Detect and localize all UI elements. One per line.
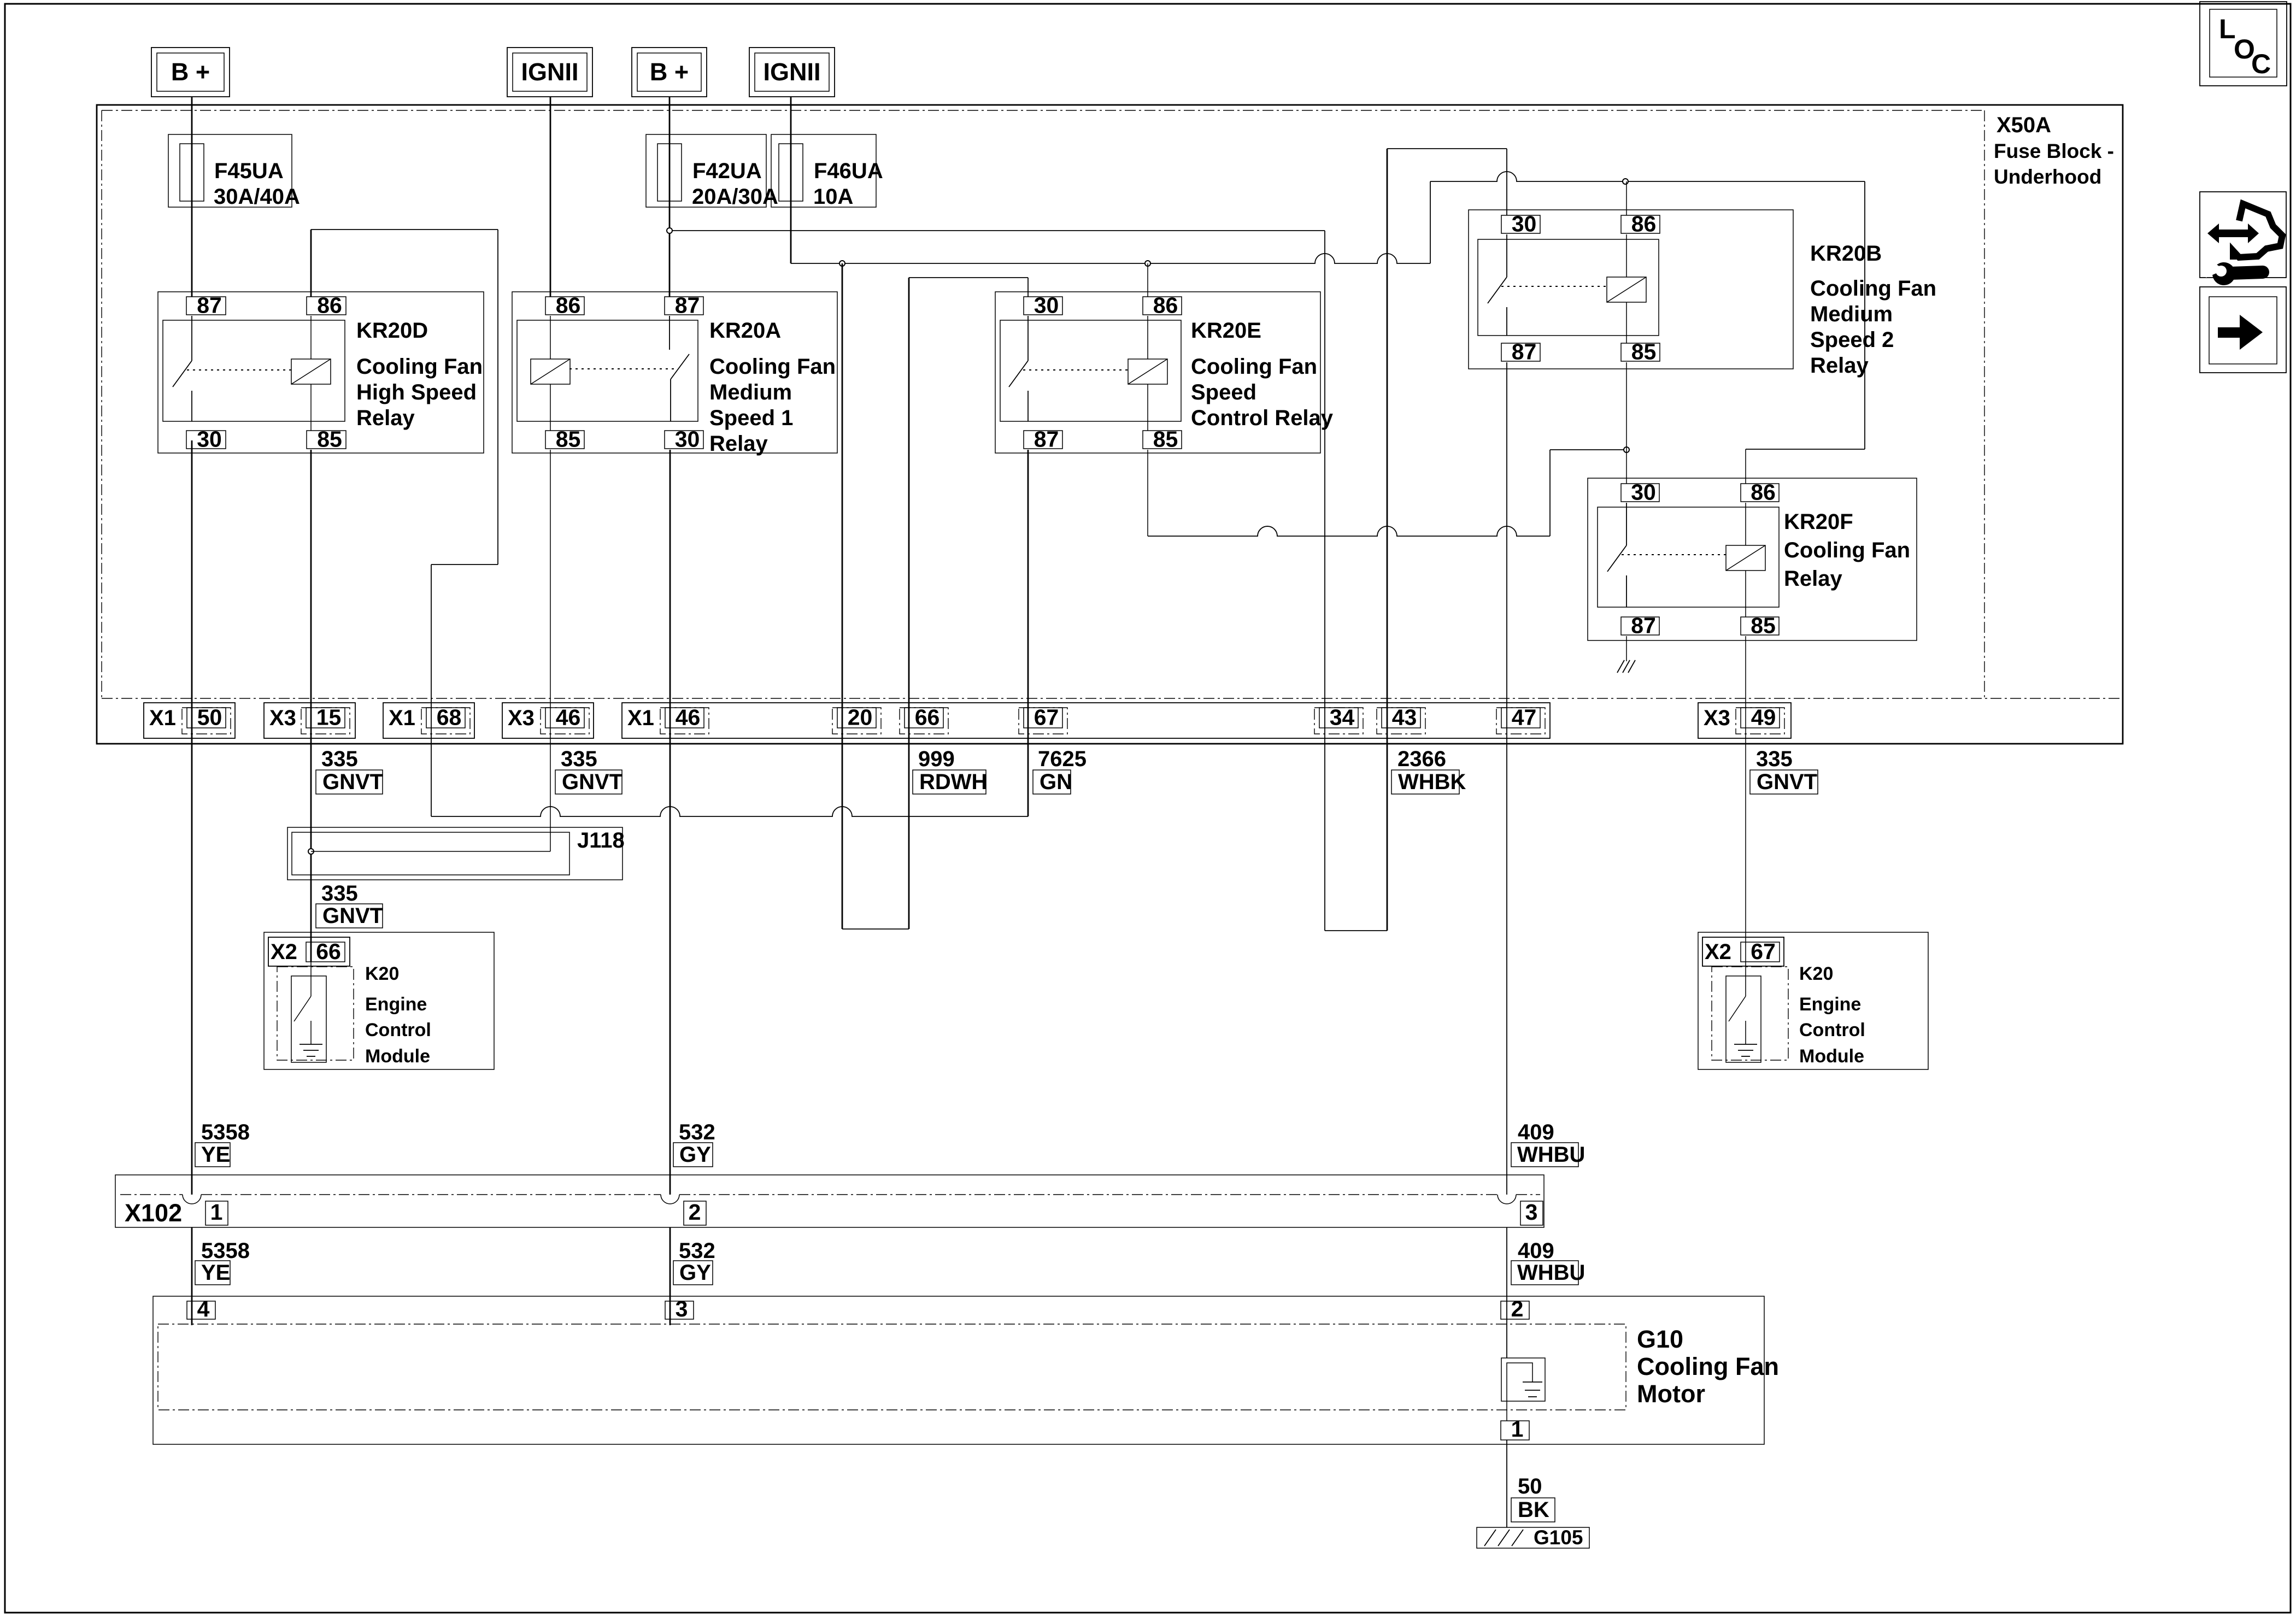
svg-text:10A: 10A [813,185,853,209]
label 5358 YE (above X102) [195,1120,250,1167]
motor symbol with internal ground [1501,1358,1545,1401]
svg-text:Relay: Relay [709,432,768,456]
fuse block label X50A Fuse Block - Underhood [1994,113,2114,188]
svg-text:G105: G105 [1534,1526,1583,1549]
wire KR20E 85 east run (hops) to KR20B 87/85 area [1147,450,1148,536]
svg-text:46: 46 [676,705,701,730]
connector X3 pin 46 [502,703,594,738]
svg-text:87: 87 [197,293,222,318]
svg-text:X2: X2 [1705,940,1731,964]
svg-text:WHBU: WHBU [1517,1143,1585,1167]
svg-text:86: 86 [1751,480,1776,505]
svg-text:Medium: Medium [709,380,792,404]
svg-text:46: 46 [556,705,581,730]
svg-text:F42UA: F42UA [692,159,762,183]
J118 bus wire [311,851,550,852]
svg-text:335: 335 [1756,747,1793,771]
svg-text:KR20F: KR20F [1784,510,1853,534]
X102 pin 3 [1520,1199,1543,1225]
switch KR20D [191,316,192,361]
svg-text:3: 3 [1525,1199,1538,1225]
G10 pin 3 [665,1296,694,1321]
svg-text:Engine: Engine [365,994,427,1015]
svg-text:85: 85 [1153,427,1178,452]
connector X3 pin 15 [264,703,355,738]
svg-text:X102: X102 [125,1199,182,1227]
wire KR20F 87 to ground [1626,636,1627,661]
svg-text:GY: GY [679,1143,711,1167]
svg-text:5358: 5358 [201,1120,250,1144]
svg-text:Speed 1: Speed 1 [709,406,793,430]
svg-text:B +: B + [171,58,210,86]
wire KR20B 85 to KR20F 30 [1626,362,1627,484]
svg-text:34: 34 [1330,705,1355,730]
svg-text:86: 86 [1153,293,1178,318]
svg-text:68: 68 [437,705,462,730]
wire feed along top to KR20B 86 and KR20F 86 riser [1430,172,1865,181]
wire 532 GY (X102 2 to G10 3) [670,1227,671,1325]
module K20 Engine Control Module (left, pin X2 66) [264,932,494,1069]
wire IGNII (left) to KR20A 86 [550,97,551,297]
svg-text:Cooling Fan: Cooling Fan [356,355,483,379]
svg-text:K20: K20 [1799,963,1833,984]
svg-text:Underhood: Underhood [1994,166,2101,188]
svg-text:67: 67 [1751,939,1776,964]
svg-text:20: 20 [848,705,873,730]
connector X102 [115,1175,1544,1227]
coil KR20E [1128,359,1167,384]
relay KR20B Cooling Fan Medium Speed 2 Relay [1469,210,1936,378]
wire KR20F 85 to X3 49 [1745,636,1746,962]
pin 67 [1019,705,1067,734]
wire KR20E 87 down to pin 67 and under-block link [1027,450,1029,816]
svg-text:43: 43 [1392,705,1417,730]
svg-text:Motor: Motor [1637,1380,1705,1408]
label 409 WHBU (above X102) [1511,1120,1585,1167]
svg-text:F46UA: F46UA [814,159,883,183]
fuse F45UA 30A/40A [168,134,300,209]
svg-text:30: 30 [197,427,222,452]
svg-text:49: 49 [1751,705,1776,730]
pin 66 [900,705,948,734]
power feed box B + [632,48,707,97]
wire KR20B 87 to pin 47 [1506,362,1507,1195]
coil KR20A [531,359,570,384]
svg-text:Cooling Fan: Cooling Fan [709,355,836,379]
power feed box IGNII [507,48,592,97]
svg-text:Cooling Fan: Cooling Fan [1637,1353,1779,1380]
wire B+ (left) to F45UA to KR20D 87 [191,97,193,297]
label 999 RDWH [913,747,987,794]
relay KR20E Cooling Fan Speed Control Relay [995,292,1334,453]
node pin 20 tap junction [839,261,845,266]
svg-text:X1: X1 [627,706,654,730]
svg-text:GNVT: GNVT [322,770,383,794]
svg-text:IGNII: IGNII [763,58,820,86]
svg-text:KR20A: KR20A [709,319,781,343]
svg-text:20A/30A: 20A/30A [692,185,778,209]
svg-text:B +: B + [650,58,689,86]
svg-text:K20: K20 [365,963,399,984]
wire B+ branch east to pin 34 drop [670,230,1325,231]
svg-text:335: 335 [321,747,358,771]
svg-text:Engine: Engine [1799,994,1861,1015]
motor G10 Cooling Fan Motor [153,1296,1779,1444]
switch KR20A (mirrored) [669,316,670,350]
fuse block X50A outer box [97,105,2123,744]
label 335 GNVT (X3 49 to K20 67) [1750,747,1818,794]
icon: vehicle repair (arrows + outline + wrench) [2200,192,2286,285]
svg-text:30: 30 [1512,211,1537,237]
svg-text:Relay: Relay [1784,567,1842,591]
svg-text:86: 86 [1631,211,1657,237]
svg-text:4: 4 [197,1296,210,1321]
svg-text:WHBU: WHBU [1517,1261,1585,1285]
svg-text:2: 2 [1511,1296,1524,1321]
connector X1 pin 68 [383,703,474,738]
svg-text:X2: X2 [271,940,297,964]
svg-text:7625: 7625 [1038,747,1087,771]
svg-text:X1: X1 [389,706,415,730]
svg-text:Speed 2: Speed 2 [1810,328,1894,352]
svg-text:KR20E: KR20E [1191,319,1261,343]
svg-text:RDWH: RDWH [919,770,987,794]
svg-text:85: 85 [556,427,581,452]
pin 20 [832,705,881,734]
svg-text:Module: Module [365,1046,430,1067]
svg-text:30A/40A: 30A/40A [214,185,300,209]
label 335 GNVT (below J118) [316,881,383,928]
svg-text:Medium: Medium [1810,302,1893,326]
node KR20E 86 tap junction [1145,261,1150,266]
svg-text:X3: X3 [269,706,296,730]
svg-text:335: 335 [321,881,358,905]
svg-text:87: 87 [1631,613,1656,638]
svg-text:Fuse Block -: Fuse Block - [1994,140,2114,162]
G10 pin 1 [1501,1416,1529,1442]
svg-text:IGNII: IGNII [521,58,578,86]
svg-text:999: 999 [918,747,955,771]
wire B+ (right) through F42UA to KR20A 87 [669,97,671,297]
LOC location-view logo box [2200,2,2287,86]
svg-text:Cooling Fan: Cooling Fan [1784,538,1910,562]
wire KR20D 85 to X3 15 [310,450,312,962]
svg-text:Module: Module [1799,1046,1864,1067]
svg-text:Relay: Relay [356,406,415,430]
ground G105 [1477,1526,1589,1549]
svg-text:409: 409 [1518,1239,1554,1263]
svg-text:335: 335 [561,747,597,771]
wire KR20D 86 jog to X1 68 [311,229,498,230]
wire IGNII (right) through F46UA down [790,97,792,263]
wire KR20A 85 to X3 46 and J118 [550,450,551,851]
svg-text:KR20B: KR20B [1810,242,1882,266]
wire 999 RDWH U-link pin 20 to pin 66 [842,928,909,930]
label 335 GNVT [555,747,623,794]
relay KR20A Cooling Fan Medium Speed 1 Relay [512,292,837,456]
svg-text:G10: G10 [1637,1325,1683,1353]
splice pack J118 [287,827,625,880]
svg-text:F45UA: F45UA [214,159,284,183]
wire KR20F 86 feed from riser [1746,449,1865,450]
svg-text:30: 30 [675,427,700,452]
svg-text:X3: X3 [1704,706,1730,730]
wire pin 66 riser over to KR20E 30 [909,277,1028,278]
connector X1 pin 50 [144,703,235,738]
svg-text:WHBK: WHBK [1398,770,1466,794]
ground (chassis) below KR20F 87 [1617,660,1635,673]
svg-text:GN: GN [1040,770,1072,794]
svg-text:YE: YE [201,1143,230,1167]
svg-text:Cooling Fan: Cooling Fan [1810,277,1936,301]
wire 5358 YE (X102 1 to G10 4) [191,1227,193,1325]
wire G10 1 to G105 [1506,1401,1507,1421]
relay KR20F Cooling Fan Relay [1588,478,1917,640]
wire pin 43 riser over to KR20B 30 [1387,148,1507,149]
svg-text:15: 15 [316,705,342,730]
node J118 splice junction [308,849,314,854]
G10 pin 2 [1501,1296,1529,1321]
svg-text:85: 85 [1631,339,1657,364]
node KR20B 86 junction [1623,179,1628,184]
svg-text:409: 409 [1518,1120,1554,1144]
icon: forward arrow [2200,287,2286,373]
coil KR20F [1726,545,1765,571]
svg-text:66: 66 [915,705,940,730]
svg-text:532: 532 [679,1120,715,1144]
svg-text:C: C [2251,49,2271,79]
svg-text:86: 86 [317,293,342,318]
wire KR20D 30 to X1 50 [191,440,193,1195]
G10 pin 4 [187,1296,215,1321]
svg-text:X3: X3 [508,706,535,730]
switch KR20B [1506,234,1507,277]
svg-text:YE: YE [201,1261,230,1285]
svg-text:KR20D: KR20D [356,319,428,343]
svg-text:BK: BK [1518,1498,1549,1522]
svg-text:X50A: X50A [1996,113,2051,137]
connector X3 pin 49 [1698,703,1791,738]
svg-text:87: 87 [1034,427,1059,452]
svg-text:30: 30 [1034,293,1059,318]
svg-text:Speed: Speed [1191,380,1256,404]
label 50 BK [1511,1474,1555,1522]
label 335 GNVT [316,747,383,794]
svg-text:GY: GY [679,1261,711,1285]
svg-text:1: 1 [210,1199,223,1225]
pin 43 [1377,705,1425,734]
coil KR20D [291,359,331,384]
svg-text:X1: X1 [149,706,176,730]
power feed box IGNII [749,48,835,97]
svg-text:30: 30 [1631,480,1656,505]
pin 34 [1314,705,1363,734]
switch KR20F [1626,503,1627,545]
wire X1 68 tail to KR20E 87 tail (hops 46-drop, 532 wire, 20 wire) [431,807,1028,816]
svg-text:Control: Control [365,1020,431,1040]
label 532 GY (above X102) [673,1120,715,1167]
coil KR20B [1607,277,1646,302]
svg-text:GNVT: GNVT [1757,770,1817,794]
svg-text:2: 2 [689,1199,701,1225]
svg-text:L: L [2219,14,2236,44]
svg-text:47: 47 [1512,705,1537,730]
switch KR20E [1027,316,1029,361]
svg-text:87: 87 [675,293,700,318]
fuse F46UA 10A [771,134,883,209]
svg-text:GNVT: GNVT [562,770,623,794]
X102 pin 2 [684,1199,706,1225]
pin 46 (X1) [660,705,709,734]
svg-text:87: 87 [1512,339,1537,364]
wire 2366 WHBK U-link pin 34 to pin 43 [1325,930,1387,931]
svg-text:1: 1 [1511,1416,1524,1442]
svg-text:GNVT: GNVT [322,904,383,928]
connector band with X1 46 and internal pins [622,703,1550,738]
svg-text:50: 50 [197,705,222,730]
svg-text:5358: 5358 [201,1239,250,1263]
pin 47 [1496,705,1545,734]
label 2366 WHBK [1391,747,1466,794]
module K20 Engine Control Module (right, pin X2 67) [1698,932,1928,1069]
svg-text:50: 50 [1518,1474,1542,1498]
fuse F42UA 20A/30A [646,134,778,209]
svg-text:Cooling Fan: Cooling Fan [1191,355,1317,379]
svg-text:3: 3 [676,1296,688,1321]
svg-text:67: 67 [1034,705,1059,730]
wire 409 WHBU (X102 3 to G10 2) [1506,1227,1507,1358]
relay KR20D Cooling Fan High Speed Relay [158,292,484,453]
wire pin 20 drop [842,263,843,929]
X102 pin 1 [205,1199,228,1225]
svg-text:66: 66 [316,939,341,964]
svg-text:86: 86 [556,293,581,318]
svg-text:Relay: Relay [1810,354,1869,378]
svg-text:85: 85 [317,427,342,452]
svg-text:Control: Control [1799,1020,1865,1040]
svg-text:2366: 2366 [1397,747,1446,771]
wire KR20A 30 to X1 46 [670,450,671,1195]
label 7625 GN [1033,747,1087,794]
wire IGNII/F46UA feed east (hops pins 34,43 drops) to riser [791,254,1430,263]
svg-text:J118: J118 [577,828,625,852]
svg-text:Control Relay: Control Relay [1191,406,1334,430]
svg-text:High Speed: High Speed [356,380,477,404]
power feed box B + [151,48,230,97]
svg-text:532: 532 [679,1239,715,1263]
svg-text:85: 85 [1751,613,1776,638]
fuse block X50A inner dash-dot border [102,110,1984,111]
